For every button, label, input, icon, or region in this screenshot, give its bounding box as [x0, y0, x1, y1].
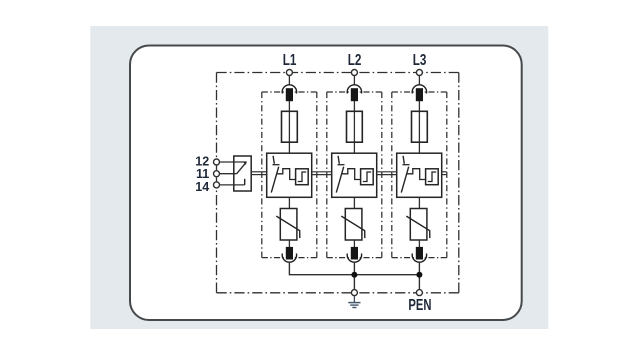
plug-in contact bottom pin L2 (black): [351, 247, 358, 260]
fuse / disconnector F3: [412, 111, 428, 142]
plug-in contact top pin L3 (black): [416, 88, 423, 101]
white rounded card: [130, 46, 522, 321]
panel background: [90, 26, 548, 329]
wire L3 plug to SPD box (through fuse): [418, 101, 420, 153]
plug-in contact bottom arc L3: [412, 254, 426, 263]
wire L2 column to earth terminal: [353, 261, 355, 289]
varistor RV3: [406, 209, 430, 241]
wire L2 varistor to bottom plug: [353, 240, 355, 247]
changeover contact blade with arrow: [237, 161, 247, 173]
node L1 terminal circle: [286, 70, 292, 76]
branch L2 dashed module boundary: [327, 92, 382, 258]
wire terminal 11: [219, 173, 236, 175]
node L2 terminal circle: [351, 70, 357, 76]
node earth terminal circle: [351, 290, 357, 296]
fuse / disconnector F2: [347, 111, 363, 142]
plug-in contact bottom pin L3 (black): [416, 247, 423, 260]
plug-in contact top pin L1 (black): [286, 88, 293, 101]
varistor RV2: [341, 209, 365, 241]
wire L3 column to PEN terminal: [418, 261, 420, 289]
mechanical link K1 to U1 (double line): [251, 172, 267, 175]
node terminal 12 circle: [214, 159, 220, 165]
fuse / disconnector F1: [282, 111, 298, 142]
wire L1 varistor to bottom plug: [288, 240, 290, 247]
node L3 terminal circle: [416, 70, 422, 76]
wire L3 varistor to bottom plug: [418, 240, 420, 247]
mechanical link U1 to U2 (double line): [312, 172, 332, 175]
plug-in contact bottom arc L2: [347, 254, 361, 263]
wire L3 box to varistor: [418, 197, 420, 208]
plug-in contact bottom arc L1: [282, 254, 296, 263]
plug-in contact top arc L3: [412, 85, 426, 94]
wire L2 plug to SPD box (through fuse): [353, 101, 355, 153]
plug-in contact top arc L1: [282, 85, 296, 94]
mechanical link U3 stub (double line): [442, 172, 447, 175]
wire L3 terminal to plug: [418, 75, 420, 85]
svg-text:L1: L1: [283, 51, 297, 68]
svg-text:L3: L3: [413, 51, 427, 68]
wire terminal 14: [219, 184, 244, 186]
node terminal 11 circle: [214, 171, 220, 177]
wire L2 box to varistor: [353, 197, 355, 208]
node terminal 14 circle: [214, 182, 220, 188]
wire terminal 12: [219, 161, 246, 163]
svg-text:PEN: PEN: [408, 296, 431, 313]
varistor RV1: [276, 209, 300, 241]
SPD monitoring/disconnect box U3: [397, 153, 442, 197]
changeover contact box K1: [234, 156, 251, 191]
svg-text:14: 14: [195, 178, 210, 193]
wire L1 plug to SPD box (through fuse): [288, 101, 290, 153]
wire L1 box to varistor: [288, 197, 290, 208]
SPD monitoring/disconnect box U2: [332, 153, 377, 197]
changeover NO contact 14 L-stub: [244, 179, 246, 185]
mechanical link U2 to U3 (double line): [377, 172, 397, 175]
node PEN terminal circle: [416, 290, 422, 296]
plug-in contact bottom pin L1 (black): [286, 247, 293, 260]
SPD monitoring/disconnect box U1: [267, 153, 312, 197]
wire bottom bus L1 to PEN column: [289, 261, 419, 274]
device enclosure dash-dot boundary: [217, 73, 459, 293]
branch L3 dashed module boundary: [392, 92, 447, 258]
wire L2 terminal to plug: [353, 75, 355, 85]
svg-text:L2: L2: [348, 51, 362, 68]
branch L1 dashed module boundary: [262, 92, 317, 258]
junction dot at L2/bus: [351, 272, 357, 278]
junction dot at L3/bus: [416, 272, 422, 278]
ground symbol: [348, 296, 360, 308]
plug-in contact top pin L2 (black): [351, 88, 358, 101]
wire L1 terminal to plug: [288, 75, 290, 85]
plug-in contact top arc L2: [347, 85, 361, 94]
